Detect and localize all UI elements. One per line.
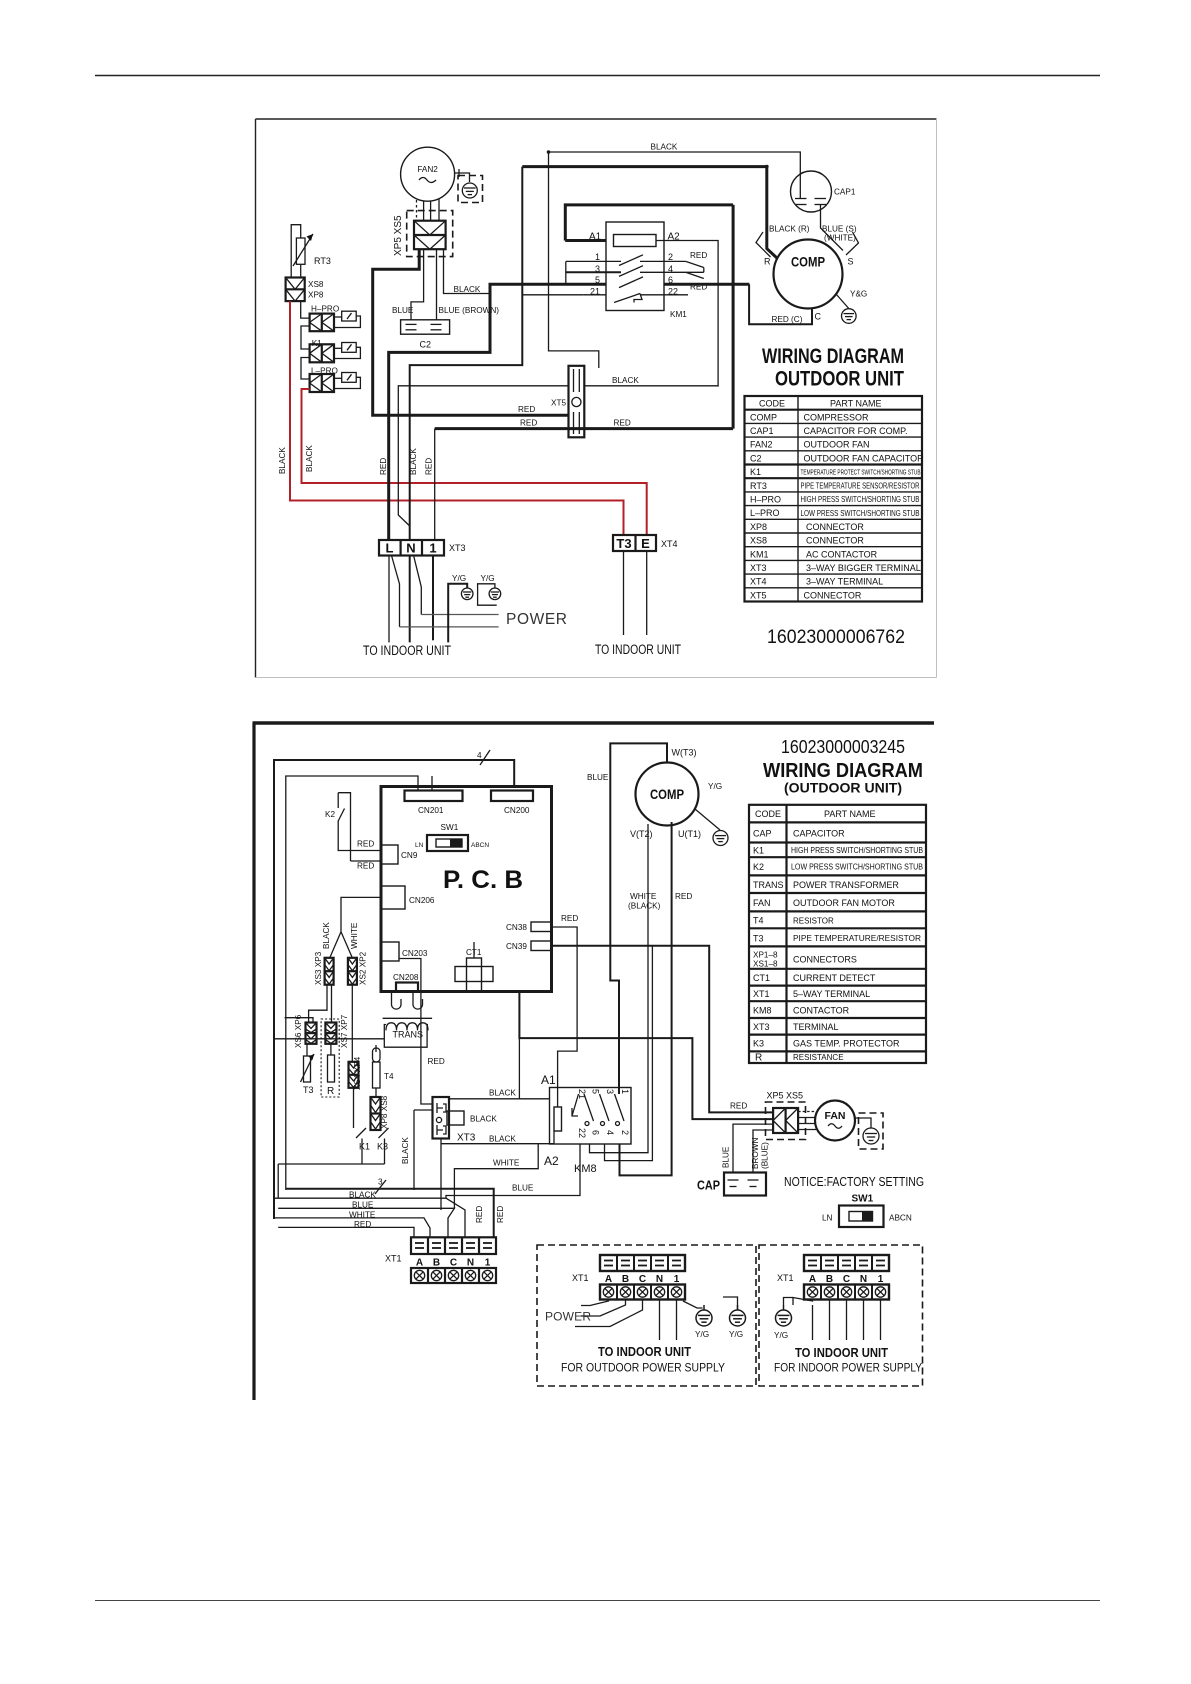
svg-text:CN206: CN206 xyxy=(409,896,435,905)
svg-text:POWER TRANSFORMER: POWER TRANSFORMER xyxy=(793,880,899,890)
terminal XT1 (main) xyxy=(411,1237,496,1283)
svg-text:COMP: COMP xyxy=(650,787,684,802)
svg-text:HIGH PRESS SWITCH/SHORTING STU: HIGH PRESS SWITCH/SHORTING STUB xyxy=(801,495,920,504)
svg-text:C2: C2 xyxy=(420,340,432,350)
svg-text:XS6 XP6: XS6 XP6 xyxy=(294,1014,303,1048)
wire KM1 21 row extension to N wire xyxy=(522,294,584,296)
svg-text:L: L xyxy=(386,541,394,556)
svg-text:16023000006762: 16023000006762 xyxy=(767,627,905,648)
svg-text:XS8: XS8 xyxy=(308,280,324,289)
diagram 2 frame (top + left) xyxy=(253,723,935,1400)
svg-text:HIGH PRESS SWITCH/SHORTING STU: HIGH PRESS SWITCH/SHORTING STUB xyxy=(791,846,923,855)
KM1 right diagonals (2-4, 4-6 links) xyxy=(686,261,704,278)
ground (FAN, dashed box) xyxy=(859,1113,884,1149)
wire K1/K3 bottoms to left bus xyxy=(278,1144,384,1164)
wires FAN2 to XP5 connector (4 leads, leftmost dashed) xyxy=(417,199,440,221)
annotation bracket BLACK(R) xyxy=(756,232,771,257)
svg-text:BLACK: BLACK xyxy=(409,448,418,475)
wire A2 black to KM8 xyxy=(441,1131,554,1144)
svg-text:E: E xyxy=(641,536,650,551)
svg-text:22: 22 xyxy=(577,1128,587,1138)
svg-text:FAN2: FAN2 xyxy=(417,165,438,174)
svg-text:K1: K1 xyxy=(753,846,764,856)
svg-text:BLUE: BLUE xyxy=(587,773,609,782)
svg-text:L–PRO: L–PRO xyxy=(750,508,780,518)
svg-text:(WHITE): (WHITE) xyxy=(824,234,856,243)
svg-text:BLUE: BLUE xyxy=(352,1201,374,1210)
svg-text:XP5 XS5: XP5 XS5 xyxy=(767,1091,804,1101)
svg-text:XT3: XT3 xyxy=(457,1133,476,1144)
connector XS8 XP8 xyxy=(286,278,305,302)
svg-text:BLACK: BLACK xyxy=(401,1137,410,1164)
svg-text:CAPACITOR FOR COMP.: CAPACITOR FOR COMP. xyxy=(804,426,908,436)
svg-text:WHITE: WHITE xyxy=(493,1159,520,1168)
svg-text:U(T1): U(T1) xyxy=(678,829,701,839)
wire C2 right plate to XP5 pin xyxy=(436,249,438,320)
thick wire KM1 row5 to left (RED) down to XT3 L xyxy=(389,284,606,540)
wire COMP to Y&G ground xyxy=(836,294,849,309)
svg-text:TRANS: TRANS xyxy=(753,880,784,890)
wire WHITE from bundle to KM8 bottom xyxy=(454,1144,538,1208)
wire XT3 N (black) up to KM1 21 xyxy=(410,167,523,540)
svg-text:PART NAME: PART NAME xyxy=(824,809,876,819)
wire XT3 bottom down to bundle xyxy=(414,1110,433,1190)
thick wire RED through XT5 bottom xyxy=(435,427,733,430)
connector CN206 xyxy=(381,886,405,909)
svg-text:CONNECTOR: CONNECTOR xyxy=(806,536,864,546)
svg-text:POWER: POWER xyxy=(506,611,567,628)
svg-text:TERMINAL: TERMINAL xyxy=(793,1022,839,1032)
wires XT4 down to indoor unit xyxy=(624,551,647,635)
svg-text:CN38: CN38 xyxy=(506,923,527,932)
svg-text:CONTACTOR: CONTACTOR xyxy=(793,1006,850,1016)
svg-text:Y/G: Y/G xyxy=(774,1331,788,1340)
svg-text:N: N xyxy=(406,541,415,556)
wire ground 1 to indoor unit xyxy=(448,584,467,643)
svg-text:PIPE TEMPERATURE/RESISTOR: PIPE TEMPERATURE/RESISTOR xyxy=(793,933,921,943)
svg-text:XT5: XT5 xyxy=(551,399,566,408)
svg-text:TO INDOOR UNIT: TO INDOOR UNIT xyxy=(598,1344,691,1359)
svg-text:ABCN: ABCN xyxy=(889,1214,912,1223)
shorting stub for K1 xyxy=(334,343,360,359)
connector XP5 XS5 body xyxy=(414,221,446,250)
contactor KM1 xyxy=(606,222,664,311)
svg-text:P. C. B: P. C. B xyxy=(443,866,523,894)
wire FAN2 to ground xyxy=(455,173,470,182)
svg-text:COMP: COMP xyxy=(750,412,777,422)
fan motor FAN (bottom) xyxy=(815,1101,855,1141)
KM1 contact 1-2 xyxy=(566,255,686,266)
svg-text:RESISTANCE: RESISTANCE xyxy=(793,1053,844,1062)
svg-text:CN9: CN9 xyxy=(401,851,418,860)
svg-text:A: A xyxy=(416,1258,423,1269)
resistor T4 xyxy=(373,1045,381,1088)
svg-text:RED: RED xyxy=(675,892,692,901)
svg-text:OUTDOOR FAN CAPACITOR: OUTDOOR FAN CAPACITOR xyxy=(804,453,925,463)
svg-text:CT1: CT1 xyxy=(753,973,770,983)
svg-text:BLACK: BLACK xyxy=(470,1115,497,1124)
svg-text:RED: RED xyxy=(520,419,537,428)
svg-text:XT1: XT1 xyxy=(753,989,770,999)
svg-text:XP8: XP8 xyxy=(750,522,767,532)
svg-text:XT1: XT1 xyxy=(777,1273,794,1283)
svg-text:1: 1 xyxy=(595,252,600,262)
svg-text:16023000003245: 16023000003245 xyxy=(781,737,905,757)
svg-text:BLUE: BLUE xyxy=(722,1146,731,1168)
svg-text:A1: A1 xyxy=(589,232,602,243)
svg-text:RED: RED xyxy=(354,1220,371,1229)
svg-text:K1: K1 xyxy=(359,1142,370,1152)
terminal XT3 (L N 1) xyxy=(379,540,444,556)
wire XT3 right-bottom down to bundle xyxy=(440,1139,442,1211)
svg-text:CURRENT DETECT: CURRENT DETECT xyxy=(793,973,876,983)
switch K3 xyxy=(376,1128,389,1144)
svg-text:RED: RED xyxy=(690,251,707,260)
svg-text:W(T3): W(T3) xyxy=(672,748,697,758)
svg-text:1: 1 xyxy=(485,1258,491,1269)
KM1 contact 5-6 xyxy=(566,261,643,287)
svg-text:XS2 XP2: XS2 XP2 xyxy=(359,951,368,985)
svg-text:TRANS: TRANS xyxy=(393,1030,424,1040)
svg-text:A1: A1 xyxy=(541,1073,556,1087)
wire BLUE from bundle to KM8 pin22 xyxy=(446,1144,580,1198)
wire RED down to XT3 1 xyxy=(434,429,436,540)
svg-text:ABCN: ABCN xyxy=(471,842,489,849)
svg-text:KM8: KM8 xyxy=(574,1163,597,1175)
svg-text:5–WAY TERMINAL: 5–WAY TERMINAL xyxy=(793,989,870,999)
svg-text:XT1: XT1 xyxy=(385,1254,402,1264)
svg-text:V(T2): V(T2) xyxy=(630,829,653,839)
svg-text:CAP1: CAP1 xyxy=(750,426,774,436)
svg-text:XS7 XP7: XS7 XP7 xyxy=(340,1014,349,1048)
ground Y/G 2 xyxy=(489,588,501,600)
wire to Y/G 1 (outdoor box) xyxy=(683,1301,703,1308)
resistor R xyxy=(328,1044,335,1082)
svg-text:2: 2 xyxy=(620,1130,630,1135)
red wire from XS8 (BLACK labelled) down to XT4 T3 xyxy=(290,301,624,535)
svg-text:OUTDOOR FAN MOTOR: OUTDOOR FAN MOTOR xyxy=(793,898,895,908)
svg-text:C2: C2 xyxy=(750,453,762,463)
wire T4 to XP8 xyxy=(375,1088,377,1097)
svg-text:Y/G: Y/G xyxy=(695,1330,709,1339)
thick wire KM1 row6 to COMP C corner xyxy=(664,283,749,286)
svg-text:CODE: CODE xyxy=(755,809,781,819)
svg-text:BROWN: BROWN xyxy=(751,1138,760,1169)
thick wire (N) to COMP R terminal xyxy=(522,167,777,259)
switch K1 (bottom diagram) xyxy=(354,1088,367,1144)
svg-text:4: 4 xyxy=(605,1130,615,1135)
svg-text:R: R xyxy=(327,1086,334,1097)
svg-text:Y&G: Y&G xyxy=(850,290,867,299)
svg-text:(BLUE): (BLUE) xyxy=(761,1142,770,1169)
svg-text:XP1–8: XP1–8 xyxy=(753,951,778,960)
svg-text:NOTICE:FACTORY SETTING: NOTICE:FACTORY SETTING xyxy=(784,1175,924,1189)
svg-text:BLACK: BLACK xyxy=(489,1135,516,1144)
svg-text:BLACK: BLACK xyxy=(349,1191,376,1200)
svg-text:H–PRO: H–PRO xyxy=(311,305,339,314)
terminal XT1 (indoor power supply box) xyxy=(804,1255,889,1300)
svg-text:CN203: CN203 xyxy=(402,949,428,958)
wire junction dots xyxy=(547,150,551,154)
wires XT3 down to indoor unit xyxy=(389,556,433,643)
ground Y&G (COMP) xyxy=(842,309,857,324)
svg-text:R: R xyxy=(764,257,771,267)
bottom horizontal page rule xyxy=(95,1600,1100,1602)
svg-text:TO INDOOR UNIT: TO INDOOR UNIT xyxy=(795,1345,888,1360)
wire W(T3) blue: COMP top to KM8 pin1 xyxy=(610,743,667,1094)
terminal XT4 (T3 E) xyxy=(613,535,656,551)
red wire from L-PRO down to XT4 E xyxy=(302,389,647,535)
svg-text:FAN2: FAN2 xyxy=(750,440,773,450)
capacitor CAP xyxy=(724,1173,766,1196)
svg-text:XT4: XT4 xyxy=(661,539,678,549)
KM8 contacts (diagonals with dots) xyxy=(572,1094,624,1126)
ground Y/G 1 xyxy=(461,588,473,600)
wire BROWN cap to connector xyxy=(753,1130,773,1173)
ground Y/G (outdoor box 1) xyxy=(696,1305,712,1326)
svg-text:CN208: CN208 xyxy=(393,973,419,982)
svg-text:OUTDOOR UNIT: OUTDOOR UNIT xyxy=(775,368,904,391)
svg-text:CONNECTORS: CONNECTORS xyxy=(793,955,857,965)
svg-text:BLACK: BLACK xyxy=(454,285,481,294)
thick wire upper loop (A1 over KM1) xyxy=(565,205,733,241)
wire left bus to XS6 right pin xyxy=(285,1018,313,1023)
svg-text:LOW PRESS SWITCH/SHORTING STUB: LOW PRESS SWITCH/SHORTING STUB xyxy=(801,509,920,518)
svg-text:WHITE: WHITE xyxy=(349,1210,376,1219)
svg-text:3–WAY TERMINAL: 3–WAY TERMINAL xyxy=(806,577,883,587)
ground Y/G (outdoor box 2) xyxy=(730,1305,746,1326)
svg-text:1: 1 xyxy=(620,1089,630,1094)
svg-text:RED: RED xyxy=(518,405,535,414)
svg-text:LN: LN xyxy=(822,1214,833,1223)
svg-text:RED: RED xyxy=(730,1102,747,1111)
svg-text:(OUTDOOR UNIT): (OUTDOOR UNIT) xyxy=(784,781,902,796)
svg-text:RED: RED xyxy=(428,1057,445,1066)
connector CN203 xyxy=(381,942,399,961)
svg-text:N: N xyxy=(467,1258,474,1269)
svg-text:CN200: CN200 xyxy=(504,806,530,815)
wire COMP C to KM1 pin6 (RED(C)) xyxy=(749,284,812,324)
connector XS4 XP4 xyxy=(349,1062,359,1088)
svg-text:RED: RED xyxy=(425,458,434,475)
wire TRANS left to bus xyxy=(274,1038,384,1040)
svg-text:BLACK: BLACK xyxy=(489,1089,516,1098)
wires connector to FAN xyxy=(798,1112,816,1130)
svg-text:FOR OUTDOOR POWER SUPPLY: FOR OUTDOOR POWER SUPPLY xyxy=(561,1361,725,1375)
svg-text:6: 6 xyxy=(591,1130,601,1135)
svg-text:BLUE: BLUE xyxy=(512,1184,534,1193)
svg-text:WHITE: WHITE xyxy=(350,922,359,949)
svg-text:BLUE (S): BLUE (S) xyxy=(822,225,857,234)
wire ground 2 bracket xyxy=(478,584,497,605)
svg-text:RED: RED xyxy=(614,419,631,428)
wire POWER line 1 xyxy=(421,614,498,616)
svg-text:WHITE: WHITE xyxy=(630,892,657,901)
connector XS7 XP7 xyxy=(325,1023,336,1044)
svg-text:K2: K2 xyxy=(325,810,335,819)
svg-text:BLACK: BLACK xyxy=(651,143,678,152)
transformer TRANS xyxy=(383,992,433,1048)
svg-text:Y/G: Y/G xyxy=(481,574,495,583)
svg-text:KM8: KM8 xyxy=(753,1006,772,1016)
KM1 contact 3-4 xyxy=(566,266,704,277)
wire POWER line 2 xyxy=(400,626,499,628)
wire to Y/G 2 (outdoor box) xyxy=(723,1297,738,1310)
svg-text:SW1: SW1 xyxy=(852,1194,874,1205)
thick wire XP5 left pin to RED line (to XT5) xyxy=(373,249,569,415)
svg-text:R: R xyxy=(755,1053,762,1064)
wire XS2 down to XS4 xyxy=(351,985,353,1062)
svg-text:XT3: XT3 xyxy=(750,563,767,573)
svg-text:XS3 XP3: XS3 XP3 xyxy=(314,951,323,985)
svg-text:Y/G: Y/G xyxy=(452,574,466,583)
connector XP8 XS8 (bottom diagram) xyxy=(371,1097,381,1130)
svg-text:T3: T3 xyxy=(303,1085,314,1095)
wire KM1 A1 row xyxy=(565,240,606,242)
svg-text:RED: RED xyxy=(475,1206,484,1223)
svg-text:T3: T3 xyxy=(753,934,764,944)
fan motor FAN2 xyxy=(401,147,455,201)
wire K1 to L-PRO xyxy=(301,358,310,380)
svg-text:AC CONTACTOR: AC CONTACTOR xyxy=(806,549,878,559)
svg-text:TEMPERATURE PROTECT SWITCH/SHO: TEMPERATURE PROTECT SWITCH/SHORTING STUB xyxy=(801,470,921,477)
svg-text:LOW PRESS SWITCH/SHORTING STUB: LOW PRESS SWITCH/SHORTING STUB xyxy=(791,863,923,872)
svg-text:BLACK: BLACK xyxy=(278,447,287,474)
svg-text:XS1–8: XS1–8 xyxy=(753,960,778,969)
svg-text:XT4: XT4 xyxy=(750,577,767,587)
svg-text:BLACK: BLACK xyxy=(305,445,314,472)
svg-text:COMPRESSOR: COMPRESSOR xyxy=(804,412,870,422)
annotation bracket BLUE(S)(WHITE) xyxy=(846,232,859,255)
svg-text:1: 1 xyxy=(429,541,436,556)
svg-text:B: B xyxy=(433,1258,440,1269)
wire V(T2): COMP bottom to KM8 pin6 xyxy=(590,824,649,1153)
svg-text:XP8: XP8 xyxy=(308,291,324,300)
svg-text:KM1: KM1 xyxy=(670,310,687,319)
wire H-PRO to K1 xyxy=(301,326,310,349)
compressor COMP (bottom) xyxy=(636,763,699,826)
svg-text:XT3: XT3 xyxy=(753,1022,770,1032)
svg-text:POWER: POWER xyxy=(545,1310,591,1324)
svg-text:XT5: XT5 xyxy=(750,590,767,600)
svg-text:(BLACK): (BLACK) xyxy=(628,902,661,911)
compressor COMP xyxy=(774,240,843,309)
svg-text:CODE: CODE xyxy=(759,399,785,409)
svg-text:TO INDOOR UNIT: TO INDOOR UNIT xyxy=(363,643,451,658)
shorting stub for L-PRO xyxy=(334,373,360,389)
resistor RT3 with arrow (temperature sensor) xyxy=(291,225,313,278)
svg-text:RED: RED xyxy=(561,914,578,923)
svg-text:K2: K2 xyxy=(753,862,764,872)
svg-text:PIPE TEMPERATURE SENSOR/RESIST: PIPE TEMPERATURE SENSOR/RESISTOR xyxy=(801,481,920,490)
wire BLACK XT5 right run xyxy=(584,385,718,387)
parts table (top diagram) xyxy=(745,396,923,602)
wire pin4 up to CN39 red line xyxy=(605,946,653,1161)
wire from BLACK run down to XT5 top xyxy=(549,152,599,368)
svg-text:GAS TEMP. PROTECTOR: GAS TEMP. PROTECTOR xyxy=(793,1039,900,1049)
svg-text:SW1: SW1 xyxy=(441,823,459,832)
svg-text:CAPACITOR: CAPACITOR xyxy=(793,829,845,839)
wires XT1 screws down (indoor box) xyxy=(784,1298,881,1341)
svg-text:BLACK (R): BLACK (R) xyxy=(769,225,810,234)
svg-text:XT1: XT1 xyxy=(572,1273,589,1283)
svg-text:3: 3 xyxy=(605,1089,615,1094)
svg-text:CAP: CAP xyxy=(697,1178,720,1193)
svg-text:2: 2 xyxy=(668,252,673,262)
connector XT5 xyxy=(569,366,585,438)
svg-text:K1: K1 xyxy=(750,467,761,477)
svg-text:S: S xyxy=(848,257,854,267)
shorting stub for H-PRO xyxy=(334,311,360,327)
svg-text:WIRING DIAGRAM: WIRING DIAGRAM xyxy=(763,760,923,782)
svg-text:CAP: CAP xyxy=(753,829,772,839)
wire FAN to ground xyxy=(855,1118,871,1128)
connector CN9 xyxy=(381,845,398,864)
svg-text:RED: RED xyxy=(379,458,388,475)
thick wire KM1 A1 loop to XT5 bottom line xyxy=(565,205,733,429)
wire BLUE cap to connector xyxy=(733,1124,773,1172)
wire CN39 red to FAN connector xyxy=(552,946,773,1113)
dotted box around XS7/R xyxy=(321,1019,339,1097)
svg-text:XS4 XP4: XS4 XP4 xyxy=(353,1056,362,1090)
svg-text:XP8 XS8: XP8 XS8 xyxy=(380,1095,389,1129)
svg-text:A2: A2 xyxy=(544,1154,559,1168)
svg-text:T4: T4 xyxy=(384,1072,394,1081)
svg-text:RT3: RT3 xyxy=(750,481,767,491)
wire BLACK into XT5 left (from XT3 N) xyxy=(398,386,568,526)
svg-text:CN39: CN39 xyxy=(506,942,527,951)
svg-text:FAN: FAN xyxy=(753,898,771,908)
svg-text:KM1: KM1 xyxy=(750,549,769,559)
svg-text:FAN: FAN xyxy=(825,1110,846,1122)
svg-text:RED: RED xyxy=(496,1206,505,1223)
svg-text:FOR INDOOR POWER SUPPLY: FOR INDOOR POWER SUPPLY xyxy=(774,1361,922,1375)
svg-text:4: 4 xyxy=(477,751,482,760)
wire U(T1): COMP bottom to KM8 pin2 (thick) xyxy=(620,822,672,1175)
wire CN38 red to KM8 coil xyxy=(552,927,577,1107)
wire XS8 to H-PRO xyxy=(301,301,310,318)
wire BLACK top run to CAP1 xyxy=(549,152,801,183)
svg-text:Y/G: Y/G xyxy=(729,1330,743,1339)
contactor KM8 xyxy=(550,1088,632,1145)
svg-text:C: C xyxy=(450,1258,457,1269)
svg-text:T3: T3 xyxy=(616,536,631,551)
svg-text:CONNECTOR: CONNECTOR xyxy=(804,590,862,600)
connector XS2 XP2 xyxy=(348,958,357,985)
connector XS3 XP3 xyxy=(325,958,334,985)
wire loop to CN201 xyxy=(286,776,418,1190)
svg-text:BLACK: BLACK xyxy=(612,376,639,385)
svg-text:C: C xyxy=(815,312,822,322)
svg-text:RESISTOR: RESISTOR xyxy=(793,917,834,926)
terminal XT3 (bottom diagram) xyxy=(433,1097,465,1139)
svg-text:TO INDOOR UNIT: TO INDOOR UNIT xyxy=(595,642,681,657)
dashed box: indoor power supply xyxy=(759,1245,923,1386)
connector XS6 XP6 xyxy=(306,1023,317,1044)
svg-text:LN: LN xyxy=(415,842,424,849)
svg-text:RED: RED xyxy=(357,840,374,849)
connector CN200 (top edge) xyxy=(491,791,533,802)
svg-text:RED (C): RED (C) xyxy=(772,315,803,324)
svg-text:Y/G: Y/G xyxy=(708,782,722,791)
svg-text:T4: T4 xyxy=(753,916,764,926)
svg-text:XT3: XT3 xyxy=(449,543,466,553)
svg-text:XP5 XS5: XP5 XS5 xyxy=(393,215,404,256)
svg-text:3–WAY BIGGER TERMINAL: 3–WAY BIGGER TERMINAL xyxy=(806,563,921,573)
KM1 contact 21-22 (with delay hook) xyxy=(584,294,688,303)
dashed box: outdoor power supply xyxy=(537,1245,756,1386)
connector XP5 XS5 body (fan) xyxy=(773,1108,798,1133)
